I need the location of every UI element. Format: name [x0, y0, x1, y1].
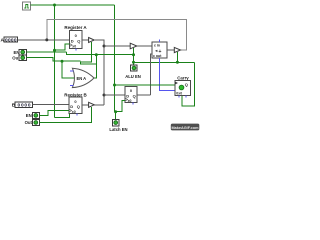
wire EN-A long run — [66, 52, 133, 55]
svg-text:0000: 0000 — [18, 103, 31, 109]
wire adder B input riser — [151, 54, 152, 95]
tri-state buffer B — [89, 102, 95, 107]
wire carry blue stubs south — [179, 96, 186, 98]
svg-text:MakeAGIF.com: MakeAGIF.com — [171, 126, 199, 130]
register B — [69, 97, 82, 114]
adder U1 — [152, 42, 167, 58]
input pin EN (A) — [14, 49, 27, 55]
wire ALU EN vertical — [133, 48, 135, 65]
wire buffer A control — [80, 42, 96, 64]
wire reg3 blue south stub — [132, 103, 134, 105]
wire reg A clock feed — [55, 44, 70, 50]
input pin Latch EN — [109, 120, 127, 133]
carry flip-flop — [175, 81, 191, 96]
svg-text:0000: 0000 — [5, 37, 17, 43]
wire bus to ALU tri-state — [104, 45, 131, 47]
svg-text:D: D — [126, 93, 129, 98]
input pin EN (B) — [26, 112, 40, 118]
node clk-regA junction — [53, 49, 56, 52]
wire adder c_out blue — [160, 58, 176, 90]
EN A gate (OR) — [70, 68, 94, 87]
tri-state buffer ALU input — [130, 43, 137, 49]
tri-state buffer A — [89, 38, 95, 43]
wire grey feedback loop — [47, 20, 187, 51]
wire clock vertical left — [54, 5, 56, 118]
wire regB Q to buffer — [82, 104, 89, 106]
wire adder c_in stub — [159, 40, 161, 43]
wire clock main horizontal — [31, 4, 115, 6]
wire ALU out tri-state control — [176, 52, 178, 62]
wire clock vertical right — [114, 5, 116, 112]
svg-text:x0: x0 — [72, 45, 76, 49]
input pin B — [12, 102, 33, 109]
wire regB blue south stub — [76, 114, 78, 116]
wire latch EN to reg3 south — [115, 112, 117, 120]
svg-text:Register A: Register A — [64, 25, 87, 30]
svg-text:EN A: EN A — [77, 76, 87, 81]
svg-text:Q: Q — [77, 104, 80, 109]
node bus-ALU junction — [103, 45, 106, 48]
node A-feedback junction — [45, 38, 48, 41]
wire adder sum out — [167, 49, 174, 51]
register OUT latch — [125, 87, 137, 103]
wire B data — [33, 104, 70, 106]
wire reg3 Q to adder B — [137, 94, 151, 96]
input pin Out (B) — [25, 119, 40, 125]
svg-text:0x0: 0x0 — [176, 92, 182, 96]
svg-text:x0: x0 — [72, 110, 76, 114]
wire EN-A pin to gate top — [27, 51, 67, 53]
wire tri-state to adder A — [137, 45, 152, 47]
wire clock to carry long green — [115, 84, 176, 86]
node clock junction — [53, 4, 56, 7]
wire ALU EN run — [134, 61, 195, 63]
svg-text:Q: Q — [185, 82, 188, 87]
svg-text:ALU EN: ALU EN — [125, 74, 141, 79]
svg-text:Out: Out — [25, 120, 33, 125]
wire carry clock loop — [182, 62, 195, 106]
svg-text:EN: EN — [26, 113, 32, 118]
wire EN-B pin feed — [39, 111, 69, 116]
clock CLK1 — [23, 2, 31, 10]
input pin A — [1, 37, 18, 44]
wire buffer A to bus — [94, 40, 104, 105]
watermark MakeAGif — [171, 124, 200, 131]
wire regA Q to buffer — [82, 39, 89, 41]
wire A data — [18, 39, 70, 41]
svg-text:c out: c out — [153, 54, 162, 58]
svg-text:Q: Q — [133, 93, 136, 98]
tri-state buffer ALU output — [174, 47, 180, 52]
wire bus to reg3 D — [104, 94, 125, 96]
wire regA blue south stub — [75, 49, 77, 51]
input pin ALU EN — [125, 65, 141, 79]
svg-text:D: D — [70, 104, 73, 109]
svg-text:Carry: Carry — [177, 76, 189, 81]
svg-text:c in: c in — [154, 44, 160, 48]
wire reg B clock feed — [55, 114, 70, 118]
svg-text:D: D — [71, 38, 74, 43]
wire bus bottom to B buffer — [94, 104, 104, 106]
svg-text:Q: Q — [77, 38, 80, 43]
input pin Out (A) — [12, 55, 26, 61]
wire clock into reg3 — [115, 100, 126, 111]
node bus-reg3 junction — [103, 94, 106, 97]
svg-text:x0: x0 — [128, 99, 132, 103]
svg-text:Latch EN: Latch EN — [109, 127, 127, 132]
register A — [70, 31, 83, 49]
wire Out-A pin to gate mid — [27, 58, 81, 62]
wire Out-B to buffer B control — [39, 107, 91, 123]
